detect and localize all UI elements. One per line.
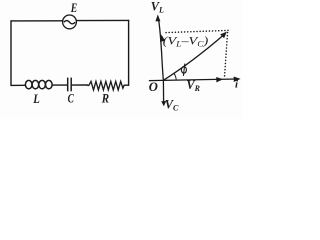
wire top-right bbox=[76, 19, 128, 21]
axis VL (vertical up) bbox=[158, 18, 163, 81]
label phi bbox=[181, 64, 186, 76]
wire left vertical bbox=[10, 21, 12, 86]
axis i (horizontal) bbox=[149, 79, 237, 81]
wire bottom-left bbox=[11, 84, 25, 86]
inductor L bbox=[25, 80, 52, 88]
wire right vertical bbox=[128, 20, 130, 85]
svg-text:O: O bbox=[149, 80, 158, 94]
dotted horizontal (VL-VC) level bbox=[166, 30, 228, 32]
svg-text:L: L bbox=[32, 92, 40, 106]
arrowhead (VL-VC) phasor bbox=[160, 35, 165, 42]
arrowhead resultant bbox=[220, 32, 227, 39]
svg-text:(VL–VC): (VL–VC) bbox=[163, 34, 209, 49]
arrowhead VL axis bbox=[155, 14, 160, 21]
svg-text:VL: VL bbox=[151, 0, 164, 15]
svg-text:i: i bbox=[235, 78, 239, 90]
svg-text:R: R bbox=[101, 92, 109, 106]
capacitor C bbox=[68, 78, 72, 92]
wire resistor-to-right bbox=[124, 84, 128, 86]
svg-text:C: C bbox=[68, 92, 75, 106]
dotted vertical at VR tip bbox=[224, 33, 227, 79]
svg-text:E: E bbox=[70, 0, 77, 15]
arrowhead VC bbox=[161, 101, 166, 106]
wire capacitor-to-resistor bbox=[71, 84, 87, 86]
angle arc phi bbox=[174, 73, 176, 80]
arrowhead i axis bbox=[234, 77, 241, 83]
arrowhead VR phasor bbox=[216, 77, 223, 82]
phasor resultant E bbox=[163, 34, 224, 80]
svg-text:VC: VC bbox=[165, 97, 179, 112]
wire top-left bbox=[11, 20, 63, 22]
ac source E bbox=[63, 15, 77, 29]
wire coil-to-capacitor bbox=[53, 84, 68, 86]
resistor R bbox=[87, 81, 124, 90]
axis VC (vertical down) bbox=[162, 80, 164, 102]
